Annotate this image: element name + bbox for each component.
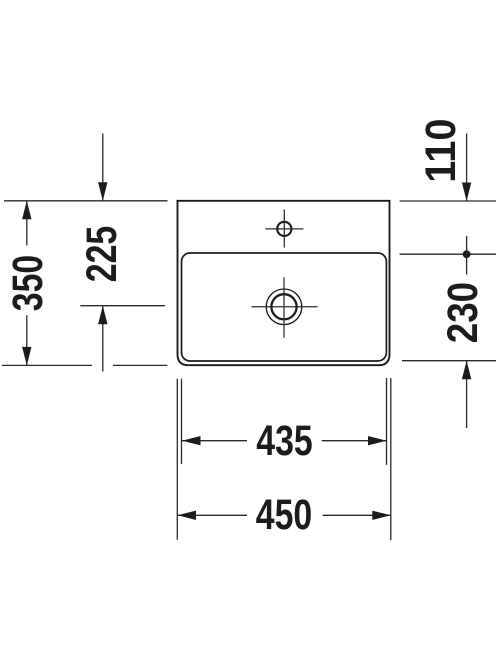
faucet hole crosshair vertical xyxy=(283,210,285,248)
faucet hole circle xyxy=(277,222,291,236)
extension line below basin left outer (x=177.3, for 450) xyxy=(176,379,178,540)
drain inner circle xyxy=(271,294,296,319)
extension line bottom left segment 1 (y=365.4) xyxy=(2,364,92,366)
dim 435 line left segment with left arrow xyxy=(182,440,247,442)
basin inner rim xyxy=(182,253,387,361)
extension line below basin right outer (x=390.8, for 450) xyxy=(390,378,392,540)
dim 435 line right segment with right arrow xyxy=(322,440,387,442)
extension line bottom left segment 2 (y=365.4) xyxy=(113,364,167,366)
dot crosshair vertical xyxy=(466,236,468,275)
svg-text:230: 230 xyxy=(439,282,486,343)
dim 350 top arrow (up) xyxy=(26,201,28,246)
drain crosshair vertical xyxy=(283,277,285,337)
extension line below basin right inner (x=386.5, for 435) xyxy=(386,378,388,465)
dim 225 top arrow (down, outside) xyxy=(102,134,104,201)
extension line below basin left inner (x=181.5, for 435) xyxy=(181,379,183,464)
extension line top left (y=200.8) xyxy=(4,200,168,202)
dim 450 line right segment with right arrow xyxy=(323,514,391,516)
basin outer outline xyxy=(178,201,390,365)
dim 110 arrow (down) xyxy=(466,134,468,202)
svg-text:350: 350 xyxy=(4,255,52,311)
svg-text:225: 225 xyxy=(78,226,126,282)
extension line left middle 225 end (y=305.7) xyxy=(80,305,165,307)
extension line right middle (y=254.2) xyxy=(400,253,496,255)
faucet hole crosshair horizontal xyxy=(265,228,303,230)
extension line top right (y=201) xyxy=(400,200,496,202)
svg-text:435: 435 xyxy=(256,417,312,465)
dim 225 bottom arrow (up, outside) xyxy=(102,306,104,372)
dim 450 line left segment with left arrow xyxy=(178,514,248,516)
drain crosshair horizontal xyxy=(252,306,318,308)
dim 230 bottom arrow (up, outside) xyxy=(466,361,468,428)
svg-text:110: 110 xyxy=(415,118,464,182)
drain outer circle xyxy=(266,289,302,325)
svg-text:450: 450 xyxy=(256,491,312,539)
extension line right bottom (y=360.7) xyxy=(402,360,496,362)
dim 350 bottom arrow (down) xyxy=(26,315,28,365)
dim point dot at 110/230 junction xyxy=(463,250,471,258)
